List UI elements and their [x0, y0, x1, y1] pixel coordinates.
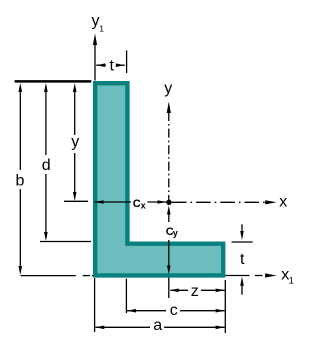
svg-text:x: x: [141, 200, 146, 210]
svg-text:1: 1: [289, 276, 294, 287]
svg-text:y: y: [164, 80, 172, 97]
svg-text:C: C: [133, 198, 141, 210]
svg-text:x: x: [279, 193, 287, 210]
svg-text:y: y: [92, 13, 100, 30]
svg-text:b: b: [16, 173, 25, 190]
svg-text:t: t: [240, 251, 245, 268]
svg-text:a: a: [153, 317, 162, 334]
svg-text:1: 1: [99, 24, 104, 34]
svg-text:t: t: [110, 58, 115, 75]
svg-text:d: d: [42, 157, 51, 174]
svg-text:y: y: [173, 228, 178, 238]
svg-text:z: z: [191, 283, 199, 300]
svg-text:y: y: [71, 133, 79, 150]
svg-text:c: c: [170, 302, 178, 319]
